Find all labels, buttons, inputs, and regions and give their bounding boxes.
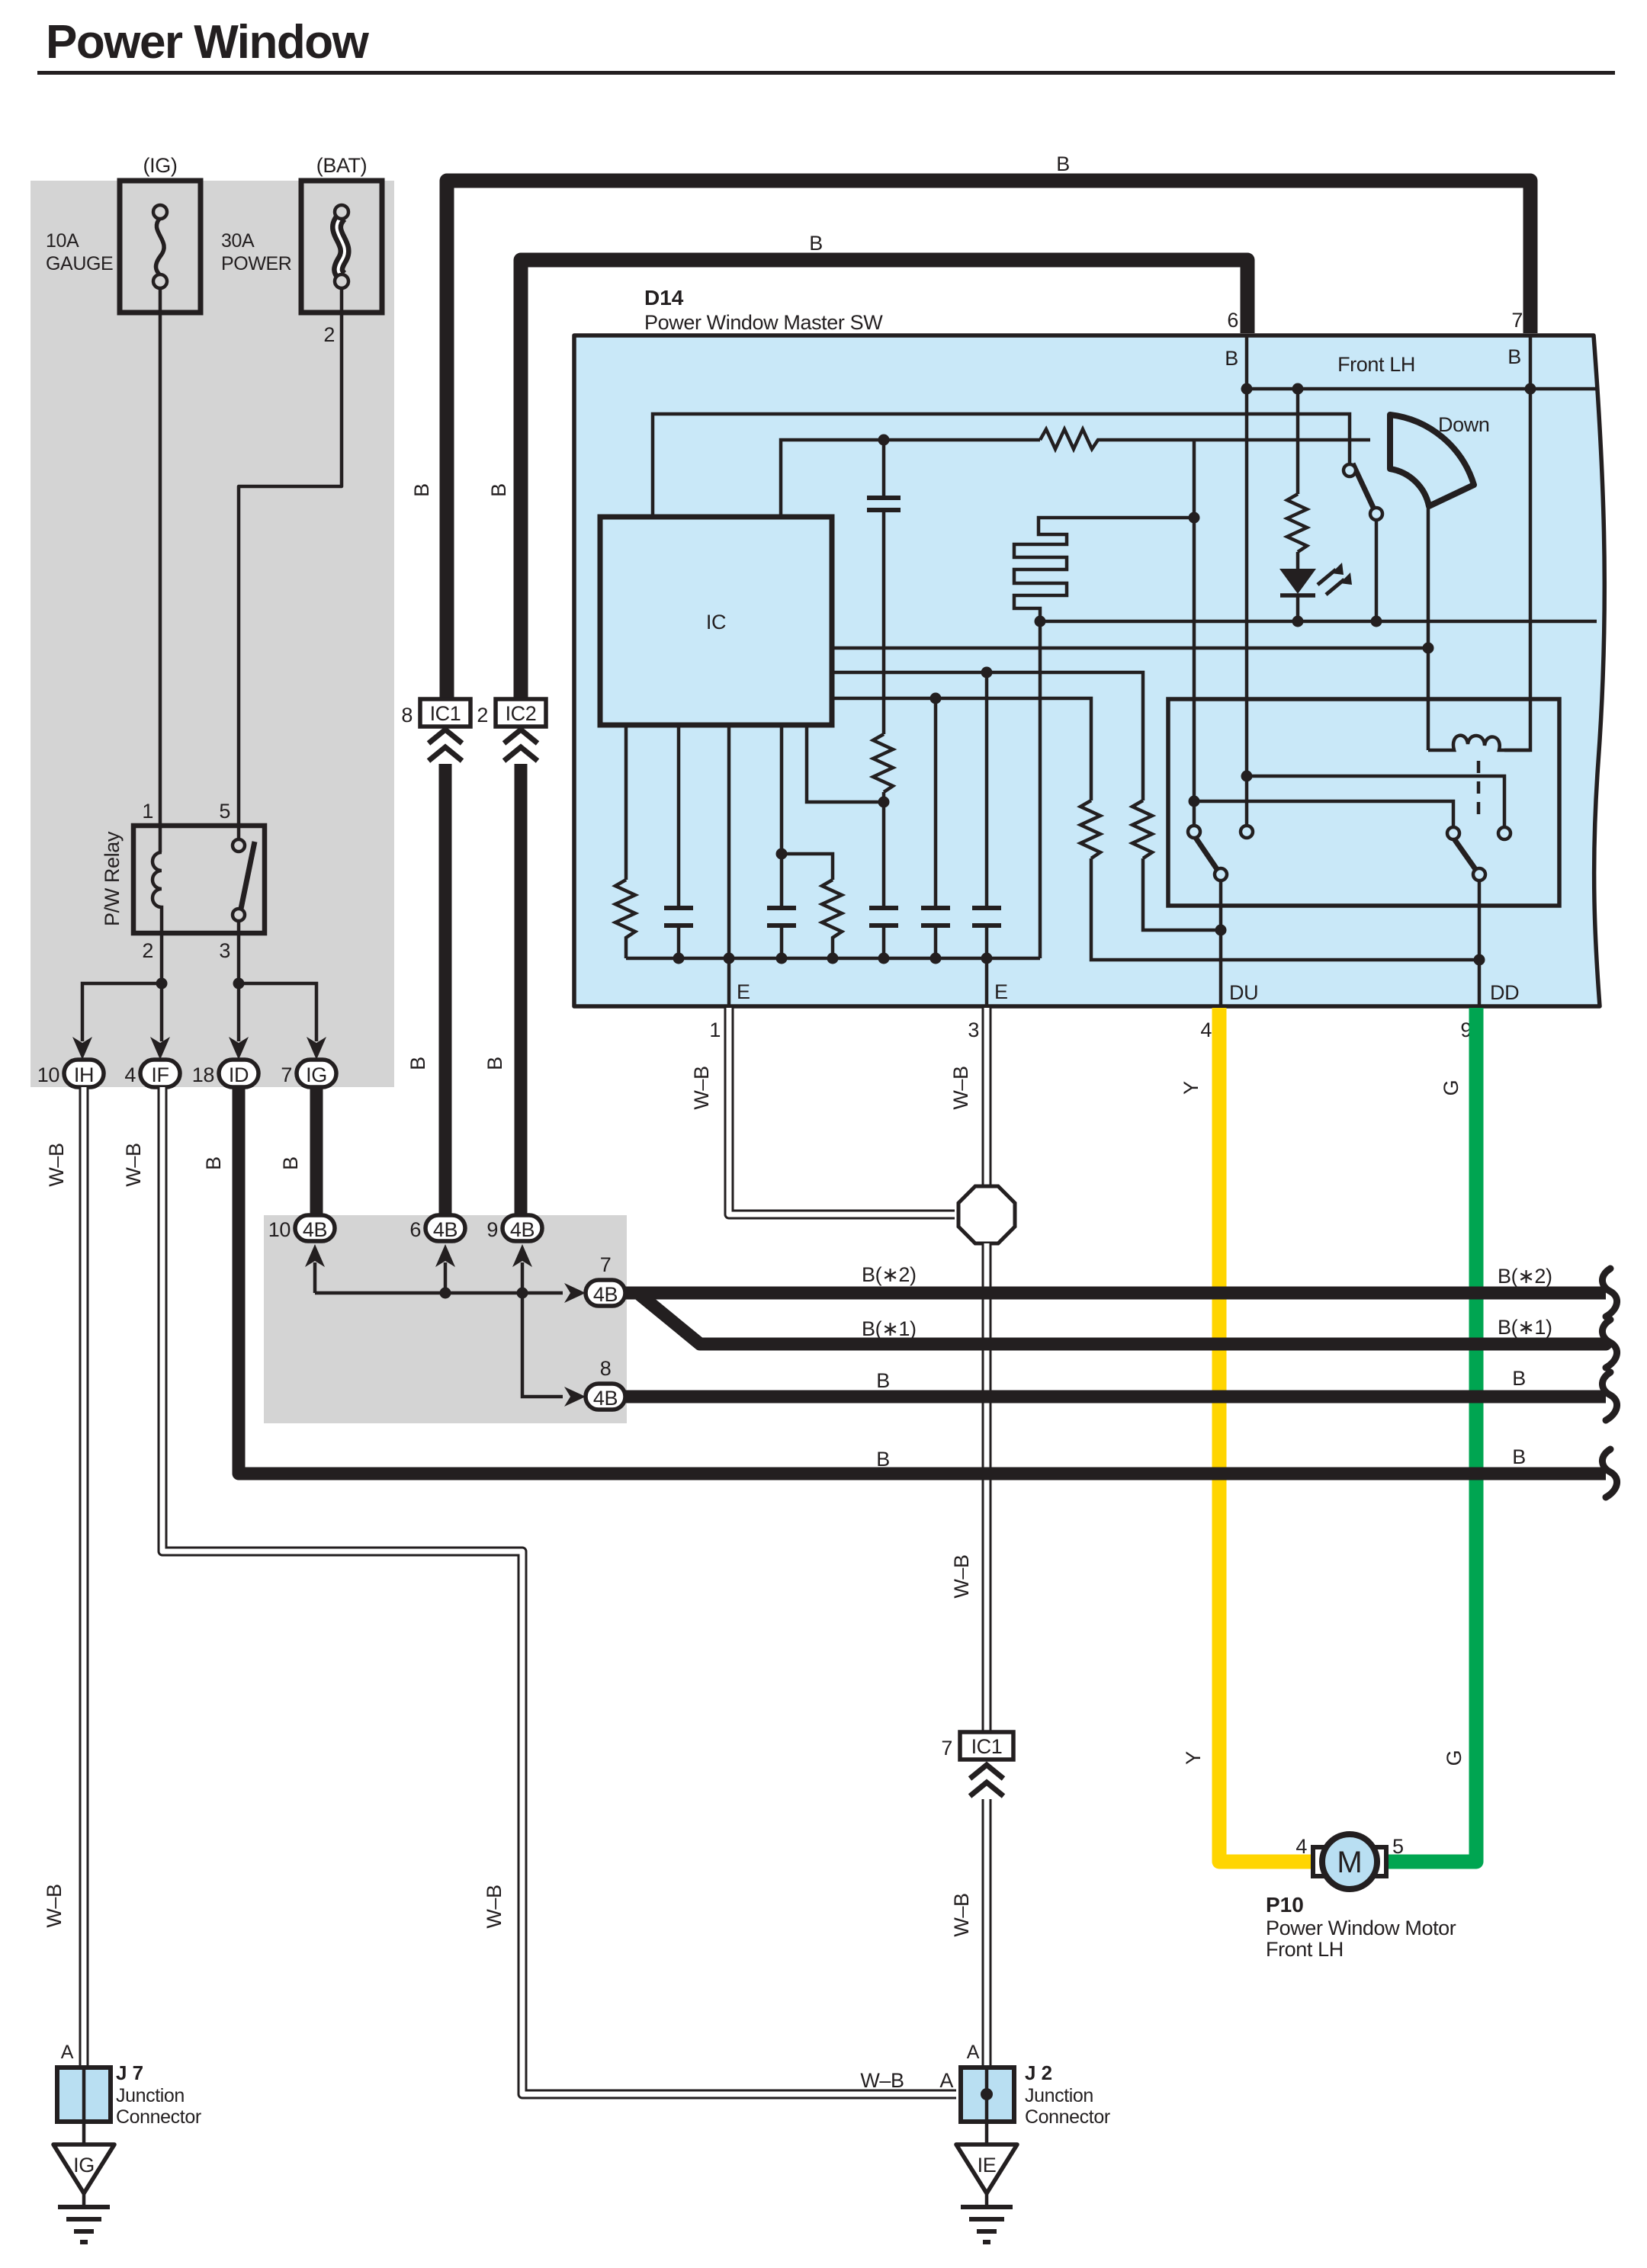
- svg-text:J 7: J 7: [116, 2061, 143, 2084]
- svg-text:M: M: [1337, 1846, 1362, 1879]
- wire S3 to DD pin: [1478, 881, 1482, 1006]
- connector 4B (pin 7): [586, 1280, 625, 1306]
- svg-text:Power Window Motor: Power Window Motor: [1266, 1917, 1456, 1939]
- svg-text:4B: 4B: [433, 1218, 457, 1241]
- wire B: top outer from IC1 up right and down to pin 7: [447, 181, 1530, 699]
- R4/C4 branch from IC: [767, 725, 842, 958]
- wire wedge tail to coil: [1427, 506, 1430, 750]
- arrow into ID: [229, 1037, 249, 1060]
- wire B: IC1 chevron down to 4B: [439, 764, 452, 1217]
- motor P10 terminals: [1313, 1847, 1327, 1876]
- internal bus y=815: [1040, 620, 1597, 624]
- svg-text:E: E: [737, 980, 750, 1003]
- svg-text:9: 9: [486, 1218, 498, 1241]
- wire B: IG down to 4B junction: [310, 1087, 323, 1217]
- curl at right end of B(*2): [1602, 1269, 1616, 1317]
- wire comb bottom to ground bus: [1039, 621, 1042, 958]
- connector IC2 (top): [496, 699, 546, 727]
- wire W-B: E pin 3 to octagon top: [982, 1008, 992, 1187]
- svg-text:D14: D14: [644, 286, 684, 310]
- comb element (position sensor): [1014, 518, 1194, 621]
- junction bus/C2: [878, 953, 890, 964]
- svg-text:G: G: [1443, 1750, 1466, 1766]
- svg-text:W–B: W–B: [690, 1066, 713, 1109]
- ground IG triangle: [53, 2144, 114, 2193]
- junction comb top / R1 net: [1189, 512, 1200, 524]
- wire IC right y=916 to R8: [832, 698, 1091, 800]
- junction S1/bus815: [1371, 616, 1382, 627]
- capacitor C5: [921, 698, 950, 958]
- svg-text:P10: P10: [1266, 1893, 1304, 1917]
- svg-text:IC2: IC2: [506, 702, 537, 725]
- svg-text:2: 2: [477, 704, 488, 727]
- wire/dot: comb net to right switch NO contact: [1189, 796, 1454, 828]
- junction at relay pin 2 branch: [156, 978, 168, 990]
- svg-text:B: B: [876, 1448, 890, 1471]
- connector IG: [297, 1060, 336, 1087]
- svg-text:5: 5: [219, 800, 230, 823]
- relay block gray background (4B junction area): [264, 1215, 627, 1423]
- arrow into 7-4B: [564, 1283, 586, 1303]
- svg-text:W–B: W–B: [950, 1554, 973, 1598]
- junction bus/C4: [776, 953, 788, 964]
- svg-text:J 2: J 2: [1025, 2061, 1052, 2084]
- junction LED/bus815: [1292, 616, 1304, 627]
- connector IH: [64, 1060, 104, 1087]
- svg-text:DU: DU: [1229, 981, 1258, 1004]
- svg-text:B: B: [487, 483, 510, 497]
- svg-text:B: B: [1056, 152, 1070, 175]
- resistor R8 (x=1431): [1080, 800, 1485, 966]
- left switch S2 (up drive): [1188, 826, 1253, 881]
- wire W-B: octagon to IC1 connector: [982, 1243, 992, 1732]
- wire B: IC2 chevron down to 4B: [515, 764, 528, 1217]
- junction connector J7: [57, 2068, 111, 2122]
- svg-text:Junction: Junction: [116, 2085, 185, 2106]
- wire W-B: IC1 to J2: [982, 1799, 992, 2068]
- svg-text:1: 1: [709, 1019, 721, 1041]
- curl at right end of B(*1): [1602, 1320, 1616, 1368]
- svg-text:4B: 4B: [593, 1387, 618, 1410]
- svg-text:Down: Down: [1438, 413, 1489, 436]
- svg-text:18: 18: [192, 1063, 214, 1086]
- svg-text:B: B: [1225, 347, 1238, 370]
- resistor R2 (vertical, under C1): [873, 734, 893, 792]
- wire IC right y=882 to R7: [832, 672, 1143, 800]
- svg-text:Front LH: Front LH: [1266, 1938, 1344, 1961]
- junction bus/C6: [981, 953, 993, 964]
- svg-text:W–B: W–B: [45, 1143, 68, 1186]
- wire R2 to junction: [882, 792, 886, 802]
- wire: relay pin 3 down to junction: [237, 933, 241, 983]
- junction block gray background: [30, 181, 394, 1087]
- junction C1 tap: [878, 435, 890, 446]
- svg-text:B: B: [483, 1057, 506, 1070]
- junction connector J2: [961, 2068, 1014, 2122]
- svg-text:Front LH: Front LH: [1337, 353, 1415, 376]
- junction bus/C5: [930, 953, 942, 964]
- svg-text:B: B: [202, 1156, 225, 1170]
- svg-text:W–B: W–B: [483, 1885, 506, 1928]
- motor P10: [1322, 1834, 1377, 1889]
- svg-text:7: 7: [281, 1063, 292, 1086]
- svg-text:W–B: W–B: [950, 1893, 973, 1936]
- curl at right end of bottom B wire: [1602, 1449, 1616, 1497]
- connector 4B (pin 9): [502, 1215, 542, 1241]
- fusible link FL 30A POWER box: [301, 181, 382, 313]
- ground IG bars: [58, 2193, 110, 2242]
- ground bus inside D14: [626, 957, 1040, 961]
- svg-text:(BAT): (BAT): [316, 154, 368, 177]
- svg-text:IC1: IC1: [430, 702, 461, 725]
- svg-text:W–B: W–B: [860, 2069, 904, 2092]
- connector 4B (pin 6): [425, 1215, 465, 1241]
- svg-text:B(∗2): B(∗2): [862, 1263, 917, 1286]
- svg-text:POWER: POWER: [221, 253, 291, 274]
- svg-text:Y: Y: [1180, 1081, 1202, 1095]
- wire G: DD pin to motor: [1386, 1008, 1476, 1862]
- wire branch to IF: [160, 983, 164, 1041]
- svg-text:A: A: [61, 2042, 74, 2063]
- arrow into IF: [150, 1037, 170, 1060]
- svg-text:B: B: [809, 232, 823, 255]
- relay R1 P/W Relay box: [133, 826, 265, 933]
- svg-text:3: 3: [219, 939, 230, 962]
- junction comb bottom: [1035, 616, 1046, 627]
- junction C5 tap: [930, 693, 942, 704]
- svg-text:IH: IH: [74, 1063, 94, 1086]
- svg-text:6: 6: [1227, 309, 1238, 332]
- wire: relay pin 2 down to junction: [160, 933, 164, 983]
- ground IE triangle: [956, 2144, 1017, 2193]
- wire B(*1): fork diagonal and horizontal to page edge: [640, 1295, 1606, 1344]
- wire: IC top to R1 line (y=577): [781, 440, 1040, 517]
- resistor R3 + capacitor C3 pair at IC bottom left: [615, 725, 693, 958]
- svg-text:A: A: [967, 2042, 980, 2063]
- svg-text:IC1: IC1: [971, 1735, 1003, 1758]
- svg-text:W–B: W–B: [122, 1143, 145, 1186]
- svg-text:5: 5: [1392, 1835, 1404, 1858]
- junction on link net at 6-4B: [440, 1288, 451, 1299]
- ground link net inside relay block: [315, 1262, 563, 1397]
- wire B: top inner from IC2 up right and down to pin 6: [521, 260, 1247, 699]
- connector 4B (pin 10): [295, 1215, 335, 1241]
- svg-text:30A: 30A: [221, 230, 255, 252]
- junction on link net at 9-4B: [517, 1288, 528, 1299]
- arrow into IH: [72, 1037, 92, 1060]
- svg-text:B: B: [406, 1057, 429, 1070]
- wire IC pin to E1 (x=956): [727, 725, 731, 1006]
- svg-text:B: B: [1507, 345, 1521, 368]
- svg-text:7: 7: [941, 1737, 952, 1760]
- wire W-B: IF to J2 (down, right, down, right): [162, 1087, 956, 2094]
- svg-text:ID: ID: [229, 1063, 249, 1086]
- wire/dot: pin6 net to right switch NC contact: [1241, 771, 1505, 828]
- svg-text:3: 3: [968, 1019, 979, 1041]
- wire J2 to IE ground: [985, 2122, 989, 2144]
- svg-text:Junction: Junction: [1025, 2085, 1093, 2106]
- svg-text:4: 4: [1295, 1835, 1307, 1858]
- wire: IG fuse to relay pin 1: [159, 288, 162, 852]
- svg-text:Power Window: Power Window: [46, 16, 370, 69]
- junction coil drop: [1423, 643, 1434, 654]
- junction bus/C3: [673, 953, 685, 964]
- resistor R5 + LED D1 branch: [1287, 389, 1307, 569]
- svg-text:4: 4: [124, 1063, 136, 1086]
- svg-text:B: B: [410, 483, 433, 497]
- Down switch S1: [1344, 464, 1382, 621]
- junction pin7/bus510: [1525, 383, 1536, 395]
- LED D1: [1279, 563, 1352, 621]
- wire R1 net down to switch box (x=1566): [1193, 440, 1196, 801]
- svg-text:10: 10: [37, 1063, 59, 1086]
- wire J7 to IG ground: [82, 2122, 86, 2144]
- capacitor C1: [867, 440, 901, 734]
- svg-text:Power Window Master SW: Power Window Master SW: [644, 311, 883, 334]
- ground IE bars: [961, 2193, 1013, 2242]
- svg-text:P/W Relay: P/W Relay: [101, 831, 124, 926]
- svg-text:IE: IE: [978, 2154, 997, 2177]
- junction R2/IC line: [878, 797, 890, 808]
- wire: pin 6 internal vertical: [1245, 335, 1249, 828]
- svg-text:4B: 4B: [510, 1218, 535, 1241]
- junction at relay pin 3 branch: [233, 978, 245, 990]
- svg-text:2: 2: [142, 939, 153, 962]
- wire: pin 7 internal vertical to relay coil: [1504, 335, 1530, 750]
- fuse F1 10A GAUGE box: [120, 181, 201, 313]
- connector ID: [219, 1060, 258, 1087]
- svg-text:B: B: [876, 1369, 890, 1392]
- arrow into IG: [307, 1037, 326, 1060]
- switch assembly box: [1168, 699, 1559, 906]
- junction bus/E1: [724, 953, 735, 964]
- internal bus y=510: [1247, 387, 1597, 391]
- wire B: from 8-4B to page edge: [625, 1391, 1606, 1403]
- wire: BAT fusible link to relay pin 5: [239, 288, 342, 840]
- svg-text:GAUGE: GAUGE: [46, 253, 113, 274]
- relay coil: [152, 852, 162, 933]
- IC box: [600, 517, 832, 725]
- relay coil L1 in switch box: [1428, 736, 1530, 750]
- svg-text:Y: Y: [1182, 1751, 1205, 1765]
- svg-text:2: 2: [323, 323, 335, 346]
- wire branch to IG: [239, 983, 316, 1041]
- svg-text:6: 6: [409, 1218, 421, 1241]
- wire IC bottom to R2 junction: [807, 725, 878, 802]
- junction E3 line: [981, 667, 993, 678]
- arrow into 8-4B: [564, 1387, 586, 1407]
- svg-text:E: E: [994, 980, 1008, 1003]
- connector IC1 (lower): [960, 1732, 1013, 1760]
- svg-text:Connector: Connector: [116, 2106, 201, 2128]
- svg-text:8: 8: [600, 1357, 612, 1380]
- svg-text:8: 8: [401, 704, 413, 727]
- chevrons under lower IC1: [970, 1765, 1003, 1796]
- capacitor C6 (E3 line): [972, 672, 1001, 1006]
- svg-text:10A: 10A: [46, 230, 79, 252]
- resistor R7 (x=1499): [1132, 800, 1227, 936]
- curl at right end of 8-4B B wire: [1602, 1372, 1616, 1420]
- svg-text:B: B: [1512, 1445, 1526, 1468]
- chevrons under IC1: [429, 730, 462, 761]
- octagon joint N1: [958, 1186, 1015, 1243]
- wire W-B: IH to J7 (vertical): [79, 1087, 89, 2068]
- svg-text:4: 4: [1200, 1019, 1212, 1041]
- dashed actuator link: [1477, 761, 1481, 814]
- wire W-B: E pin 1 to octagon: [729, 1008, 955, 1214]
- svg-text:7: 7: [1511, 309, 1523, 332]
- wire IC right y=850 to coil drop: [832, 646, 1428, 650]
- wire branch to ID: [237, 983, 241, 1041]
- svg-text:B(∗1): B(∗1): [862, 1317, 917, 1340]
- svg-text:B: B: [1512, 1367, 1526, 1390]
- junction bus/R4: [827, 953, 839, 964]
- capacitor C2 (below junction): [869, 802, 898, 958]
- title underline: [37, 71, 1615, 75]
- arrow up into 4B pin6: [435, 1244, 455, 1267]
- svg-text:7: 7: [600, 1253, 612, 1276]
- chevrons under IC2: [504, 730, 538, 761]
- relay switch contacts and blade: [233, 839, 255, 933]
- connector IC1 (top): [420, 699, 470, 727]
- svg-text:B: B: [279, 1156, 302, 1170]
- svg-text:4B: 4B: [303, 1218, 327, 1241]
- svg-text:B(∗1): B(∗1): [1498, 1316, 1552, 1339]
- arrow up into 4B pin9: [512, 1244, 532, 1267]
- svg-text:10: 10: [268, 1218, 291, 1241]
- wire: IC top-left to Down switch (y=543): [653, 414, 1350, 517]
- wire B: ID down and right to page edge: [239, 1087, 1606, 1474]
- wire Y: DU pin to motor: [1219, 1008, 1313, 1862]
- svg-text:A: A: [939, 2069, 953, 2092]
- junction pin6/bus510: [1241, 383, 1253, 395]
- connector 4B (pin 8): [586, 1384, 625, 1410]
- arrow up into 4B pin10: [305, 1244, 325, 1267]
- svg-text:Connector: Connector: [1025, 2106, 1110, 2128]
- svg-text:(IG): (IG): [143, 154, 178, 177]
- wire B(*2): from 7-4B to page edge: [625, 1287, 1606, 1300]
- wire S2 to DU pin: [1219, 881, 1223, 1006]
- resistor R1 (horizontal): [1040, 429, 1370, 449]
- junction LED branch/bus510: [1292, 383, 1304, 395]
- svg-text:IG: IG: [73, 2154, 95, 2177]
- Down wedge: [1390, 415, 1474, 506]
- connector IF: [140, 1060, 180, 1087]
- svg-text:4B: 4B: [593, 1283, 618, 1306]
- D14 Power Window Master SW box: [574, 335, 1604, 1006]
- svg-text:IG: IG: [306, 1063, 327, 1086]
- right switch S3 (down drive): [1447, 827, 1511, 881]
- svg-text:IF: IF: [151, 1063, 169, 1086]
- svg-text:IC: IC: [706, 611, 726, 634]
- svg-text:1: 1: [142, 800, 153, 823]
- svg-text:B(∗2): B(∗2): [1498, 1265, 1552, 1288]
- svg-text:DD: DD: [1490, 981, 1519, 1004]
- svg-text:W–B: W–B: [43, 1884, 66, 1927]
- svg-text:G: G: [1440, 1080, 1462, 1096]
- wire branch to IH: [82, 983, 162, 1041]
- svg-text:W–B: W–B: [949, 1066, 972, 1109]
